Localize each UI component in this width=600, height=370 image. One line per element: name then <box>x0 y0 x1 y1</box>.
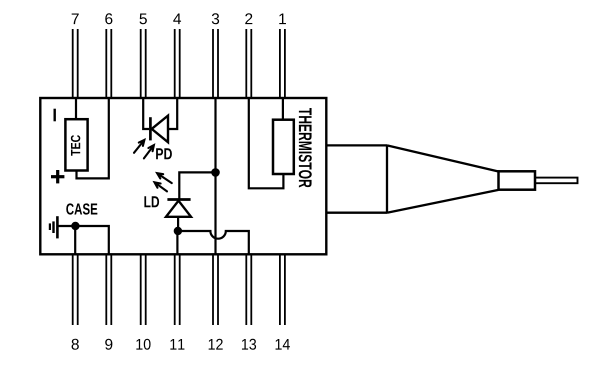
photodiode PD triangle <box>152 116 168 143</box>
wire pin 1 to thermistor top <box>282 98 284 120</box>
pin 13 number label <box>242 339 256 350</box>
pin 5 lead <box>141 29 146 98</box>
pin 11 number label <box>170 339 184 350</box>
pin 12 lead <box>213 255 218 325</box>
pin 8 lead <box>73 255 78 325</box>
wire pin 5 to PD cathode <box>143 98 149 129</box>
fiber taper cone <box>387 145 499 212</box>
photodiode PD cathode bar <box>149 117 152 140</box>
wire PD anode to pin 4 <box>168 98 177 129</box>
pin 10 number label <box>136 339 150 350</box>
optical fiber <box>535 178 578 184</box>
TEC positive polarity mark <box>51 170 64 183</box>
pin 10 lead <box>141 255 146 325</box>
fiber ferrule <box>499 171 536 189</box>
pin 2 lead <box>246 29 251 98</box>
pin 2 number label <box>245 13 252 24</box>
fiber coupling box on package <box>326 145 387 212</box>
pin 3 lead <box>213 29 218 98</box>
pin 3 number label <box>212 13 219 24</box>
pin 6 lead <box>106 29 111 98</box>
pin 4 number label <box>173 13 181 24</box>
wire ground to pin 9 <box>57 226 108 254</box>
wire TEC bottom to pin 6 <box>77 98 109 178</box>
wire LD anode to pin 13 with hop over pin 12 bus <box>178 231 249 254</box>
pin 5 number label <box>140 13 147 24</box>
pin 9 number label <box>105 339 112 350</box>
pin 12 number label <box>209 339 223 350</box>
TEC value label <box>71 135 80 156</box>
THERMISTOR value label <box>299 108 312 188</box>
pin 1 number label <box>279 13 286 24</box>
node: LD cathode junction on pin 3 bus <box>211 168 220 177</box>
laser diode LD cathode bar <box>167 198 190 201</box>
pin 8 number label <box>72 339 79 350</box>
pin 14 number label <box>276 339 290 350</box>
laser diode LD triangle <box>166 201 191 217</box>
node: LD anode / pin 11 junction <box>174 227 182 235</box>
wire pin 7 to TEC top <box>75 98 77 120</box>
wire LD anode down to junction <box>177 217 179 231</box>
PD label <box>156 148 172 159</box>
package outline (butterfly case body) <box>40 98 326 254</box>
CASE label <box>66 203 97 214</box>
pin 11 lead <box>175 255 180 325</box>
pin 7 lead <box>73 29 78 98</box>
node: case / pin 8 junction <box>71 222 79 230</box>
wire thermistor bottom to pin 2 <box>249 98 284 188</box>
wire junction to LD cathode <box>179 172 215 198</box>
LD emission arrows <box>157 173 172 183</box>
wire pin 3 / pin 12 vertical bus <box>214 98 216 254</box>
PD incident light arrows <box>134 140 144 153</box>
thermistor body <box>273 120 294 174</box>
TEC module (thermoelectric cooler) <box>65 119 87 170</box>
pin 1 lead <box>280 29 285 98</box>
TEC negative polarity mark <box>54 109 56 122</box>
pin 6 number label <box>105 13 112 24</box>
LD label <box>144 196 159 207</box>
pin 7 number label <box>72 13 79 24</box>
pin 4 lead <box>175 29 180 98</box>
pin 14 lead <box>280 255 285 325</box>
pin 9 lead <box>106 255 111 325</box>
wire junction to pin 8 <box>74 226 76 254</box>
wire junction to pin 11 <box>176 231 178 254</box>
chassis ground symbol <box>50 216 58 238</box>
pin 13 lead <box>246 255 251 325</box>
